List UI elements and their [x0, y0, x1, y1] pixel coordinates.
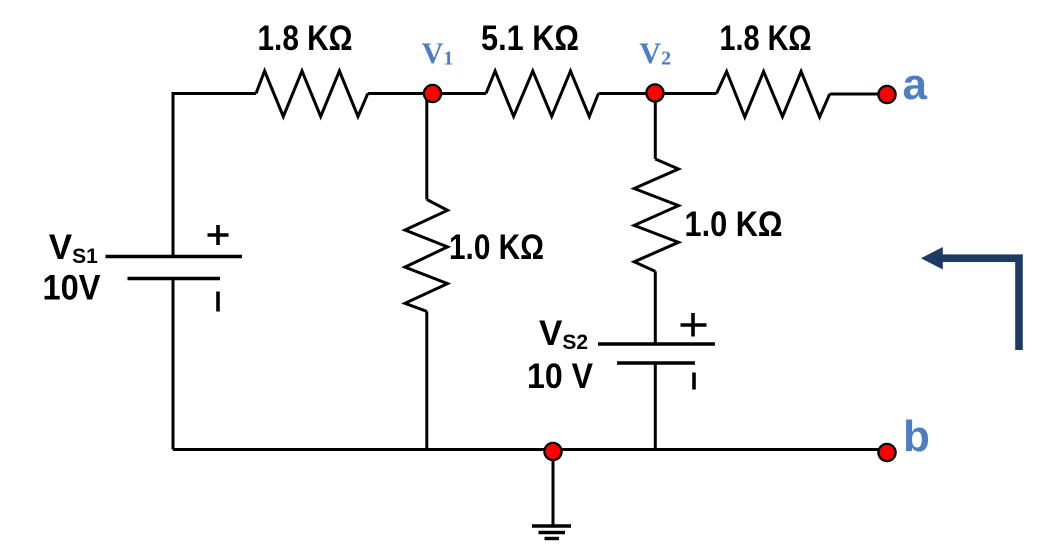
wire from VS1 positive plate up and across to R1 [173, 94, 256, 257]
current direction arrow [921, 247, 1019, 350]
wire from R4 down to bottom rail [425, 311, 428, 449]
label VS1 [49, 228, 98, 268]
resistor R4 1.0 KΩ (V1 branch) [405, 200, 448, 312]
label V2 [639, 37, 671, 70]
label a [903, 60, 928, 109]
wire from R1 through node V1 to R2 [368, 92, 486, 95]
label VS2 [539, 314, 588, 354]
wire from node V2 down to R5 [654, 94, 657, 160]
svg-text:V1: V1 [422, 37, 454, 70]
svg-text:b: b [903, 412, 930, 461]
label b [903, 412, 930, 461]
ground symbol [532, 526, 571, 539]
ground node junction dot [544, 443, 561, 460]
svg-text:1.8 KΩ: 1.8 KΩ [720, 19, 812, 58]
label 1.8 KΩ (R3) [720, 19, 812, 58]
wire from node V1 down to R4 [425, 94, 428, 200]
VS1 minus polarity [216, 292, 220, 312]
svg-text:VS1: VS1 [49, 228, 98, 268]
resistor R2 5.1 KΩ (top middle) [486, 71, 598, 117]
wire from R3 to terminal a [830, 93, 887, 96]
svg-text:10 V: 10 V [527, 357, 594, 396]
label 10V (VS1) [43, 269, 102, 308]
label 1.0 KΩ (R4) [449, 228, 544, 267]
svg-text:1.0 KΩ: 1.0 KΩ [449, 228, 544, 267]
svg-text:V2: V2 [639, 37, 671, 70]
VS2 plus polarity [681, 313, 707, 337]
node V1 junction dot [424, 85, 441, 102]
label V1 [422, 37, 454, 70]
svg-text:5.1 KΩ: 5.1 KΩ [481, 19, 579, 58]
resistor R5 1.0 KΩ (V2 branch) [634, 159, 678, 271]
resistor R1 1.8 KΩ (top left) [256, 71, 368, 117]
label 1.8 KΩ (R1) [258, 19, 353, 58]
label 5.1 KΩ (R2) [481, 19, 579, 58]
wire from VS1 negative plate down to bottom rail [172, 279, 175, 450]
svg-text:VS2: VS2 [539, 314, 588, 354]
wire from VS2 down to bottom rail [654, 363, 657, 450]
terminal a dot [878, 86, 895, 103]
ground stub wire [552, 452, 555, 527]
label 1.0 KΩ (R5) [685, 205, 783, 244]
svg-text:1.0 KΩ: 1.0 KΩ [685, 205, 783, 244]
wire from R2 through node V2 to R3 [598, 92, 716, 95]
bottom rail wire [173, 448, 887, 451]
VS2 minus polarity [692, 373, 696, 390]
resistor R3 1.8 KΩ (top right) [717, 72, 830, 118]
svg-text:1.8 KΩ: 1.8 KΩ [258, 19, 353, 58]
svg-text:a: a [903, 60, 928, 109]
terminal b dot [878, 444, 895, 461]
VS1 plus polarity [208, 225, 229, 245]
voltage source VS2 plates [598, 344, 715, 363]
label 10 V (VS2) [527, 357, 594, 396]
wire from R5 down to VS2 [654, 271, 657, 344]
svg-text:10V: 10V [43, 269, 102, 308]
node V2 junction dot [646, 84, 663, 101]
voltage source VS1 plates [106, 257, 243, 279]
